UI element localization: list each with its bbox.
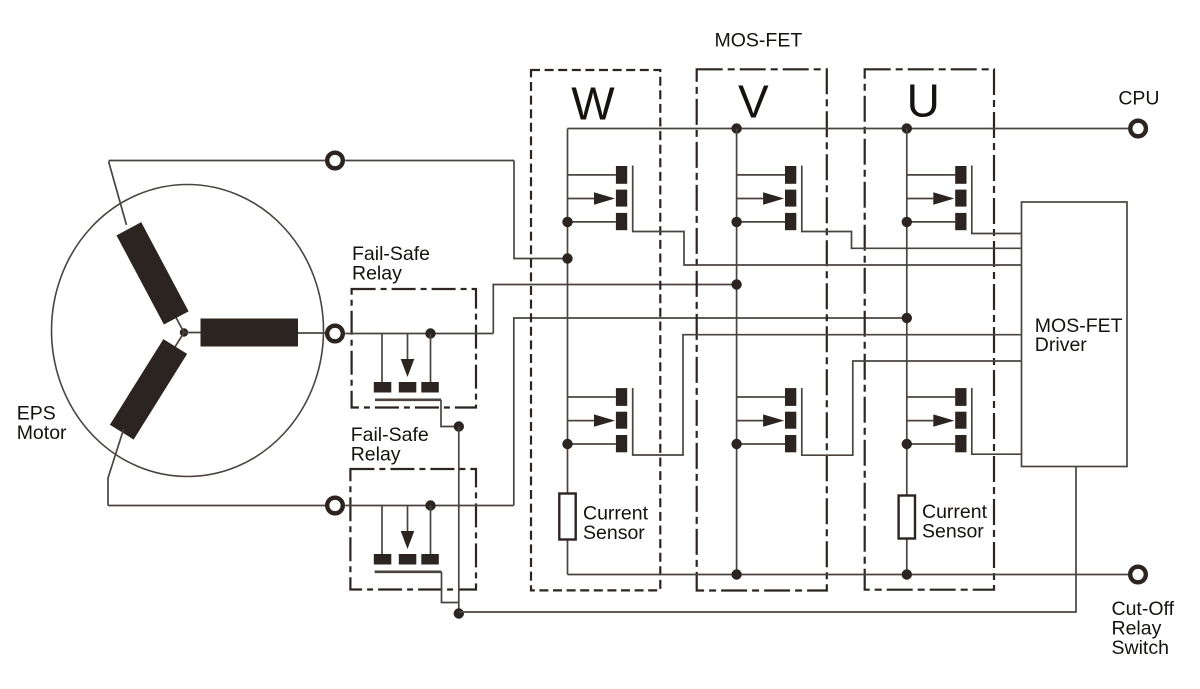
transistor Q6 (U low-side) [902, 388, 967, 452]
wire: motor bottom winding down to bottom-left corner [108, 430, 124, 506]
motor winding coil (horizontal, middle phase) [184, 319, 298, 347]
wire: U-high body/source path to driver [972, 166, 1022, 234]
relay 2 armature bar [375, 570, 442, 573]
terminal: motor middle phase connector [327, 326, 343, 342]
svg-text:V: V [738, 76, 769, 128]
phase U dash-dot box [865, 69, 994, 589]
motor winding coil (lower-left phase) [110, 325, 196, 439]
wire: relay 2 output up to U phase [514, 318, 907, 506]
relay 2 contact pad middle [399, 554, 417, 565]
EPS motor stator circle [52, 185, 324, 477]
svg-text:Sensor: Sensor [583, 522, 645, 544]
node: relay 2 coil junction [425, 500, 435, 510]
fail-safe relay 2 box [350, 469, 476, 590]
transistor Q5 (U high-side) [902, 166, 967, 230]
node: U top rail tap [902, 123, 912, 133]
terminal: cut-off relay switch connector [1130, 567, 1146, 583]
current sensor U (shunt) [899, 496, 915, 539]
terminal: CPU connector [1130, 121, 1146, 137]
svg-text:U: U [907, 75, 940, 127]
wire: relay chain vertical [458, 427, 460, 614]
svg-text:Switch: Switch [1112, 637, 1169, 659]
relay 1 armature bar [375, 398, 441, 401]
relay 2 contact pad right [421, 554, 439, 565]
node: V phase output [731, 279, 741, 289]
wire: V phase vertical [736, 129, 738, 575]
relay 1 contact pad middle [399, 382, 417, 393]
svg-text:Driver: Driver [1035, 334, 1088, 356]
node: U bottom rail tap [902, 569, 912, 579]
terminal: motor top phase connector [327, 153, 343, 169]
relay 2 contact pad left [374, 554, 392, 565]
wire: motor middle winding to terminal [298, 332, 325, 334]
phase W dashed box [531, 70, 660, 590]
wire: W-low body/source path to driver [633, 335, 1022, 455]
svg-text:W: W [571, 78, 615, 130]
terminal: motor bottom phase connector [327, 498, 343, 514]
wire: W phase vertical [567, 129, 569, 494]
node: V bottom rail tap [731, 569, 741, 579]
wire: W-high body/source path to driver [633, 166, 1022, 266]
wire: bottom horizontal run to relay 2 [108, 505, 325, 507]
EPS motor star point node [180, 328, 188, 336]
phase V dash-dot box [697, 69, 827, 590]
transistor Q2 (W low-side) [562, 388, 627, 452]
wire: relay 2 armature exit [442, 572, 459, 603]
motor winding coil (upper-left phase) [116, 222, 196, 339]
node: U phase output [902, 313, 912, 323]
relay 2 coil actuator line [407, 506, 409, 532]
wire: top supply rail to CPU [568, 128, 1129, 130]
svg-text:Sensor: Sensor [922, 520, 984, 542]
svg-text:Motor: Motor [17, 422, 67, 444]
wire: relay 1 armature exit [441, 400, 459, 427]
fail-safe relay 1 box [352, 289, 476, 408]
transistor Q1 (W high-side) [562, 166, 627, 230]
wire: V-low body/source path to driver [802, 361, 1022, 455]
svg-text:Relay: Relay [352, 263, 402, 285]
relay 2 actuator arrow [401, 531, 415, 549]
svg-text:CPU: CPU [1118, 87, 1159, 109]
wire: corner down to W phase wire [514, 161, 568, 259]
node: relay 1 armature junction [454, 421, 464, 431]
wire: V-high body/source path to driver [802, 166, 1022, 249]
wire: relay 2 input line [345, 505, 514, 507]
MOS-FET Driver box U1 [1022, 202, 1128, 467]
transistor Q4 (V low-side) [731, 388, 796, 452]
wire: U phase vertical [906, 129, 908, 496]
relay 1 actuator arrow [401, 359, 415, 377]
wire: U-low body/source path to driver [972, 388, 1022, 454]
transistor Q3 (V high-side) [731, 166, 796, 230]
relay 1 contact pad left [374, 382, 392, 393]
wire: driver to cut-off line [459, 467, 1076, 613]
current sensor W (shunt) [559, 494, 575, 540]
svg-text:MOS-FET: MOS-FET [715, 30, 803, 52]
wire: relay 1 output up to V phase [493, 285, 736, 334]
wire: W sensor to bottom rail [567, 540, 569, 575]
wire: top horizontal run to W phase [109, 160, 325, 162]
svg-text:Relay: Relay [351, 443, 401, 465]
node: relay 1 coil junction [425, 328, 435, 338]
wire: relay 1 input line [345, 333, 493, 335]
node: W phase output [562, 253, 572, 263]
relay 1 right contact drop [430, 334, 432, 383]
wire: bottom rail to cut-off relay switch [568, 574, 1129, 576]
relay 1 contact pad right [421, 382, 439, 393]
wire: U sensor to bottom rail [906, 539, 908, 575]
relay 2 left contact drop [381, 506, 383, 555]
relay 1 left contact drop [381, 334, 383, 383]
node: cut-off junction [454, 608, 464, 618]
relay 1 coil actuator line [407, 334, 409, 360]
relay 2 right contact drop [430, 506, 432, 555]
node: V top rail tap [731, 123, 741, 133]
wire: motor top winding to top-left corner [109, 161, 127, 226]
